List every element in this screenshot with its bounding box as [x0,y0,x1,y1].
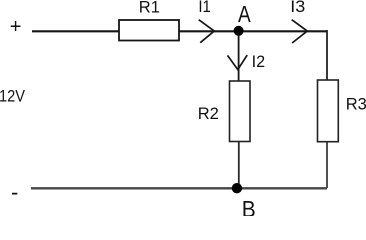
svg-text:R3: R3 [346,95,366,113]
svg-text:12V: 12V [0,87,25,105]
svg-text:R2: R2 [198,105,219,123]
svg-text:+: + [10,16,22,38]
svg-text:-: - [11,179,18,204]
svg-text:A: A [238,1,251,27]
svg-text:I3: I3 [290,0,305,16]
svg-text:I1: I1 [198,0,211,16]
svg-text:R1: R1 [139,0,160,16]
svg-text:B: B [242,196,256,216]
svg-text:I2: I2 [252,53,266,71]
